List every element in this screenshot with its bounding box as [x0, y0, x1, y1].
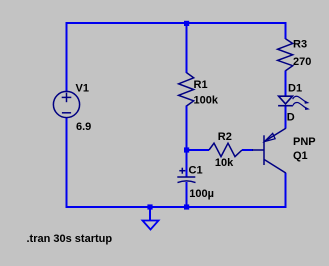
svg-text:D: D [287, 112, 295, 124]
svg-text:10k: 10k [215, 157, 234, 169]
node junction R1/R2/C1 [184, 147, 189, 152]
svg-text:.tran 30s startup: .tran 30s startup [27, 233, 113, 245]
svg-text:PNP: PNP [293, 136, 316, 148]
svg-text:100µ: 100µ [189, 188, 214, 200]
base pin [252, 149, 264, 151]
wire middle branch top [186, 23, 188, 73]
D1 light arrow 2 [293, 102, 305, 107]
svg-text:6.9: 6.9 [76, 121, 91, 133]
collector diagonal [264, 159, 286, 173]
voltage source V1 [53, 91, 79, 117]
resistor R3 [278, 39, 293, 71]
diode D1 (LED) [278, 96, 293, 106]
wire R3 to D1 [285, 71, 287, 97]
wire right rail top (to R3) [285, 22, 287, 39]
svg-text:R1: R1 [194, 79, 208, 91]
wire left rail bottom [66, 118, 68, 209]
wire ground stem [149, 207, 151, 220]
svg-text:Q1: Q1 [293, 150, 308, 162]
resistor R1 [179, 73, 194, 106]
svg-text:R3: R3 [293, 38, 307, 50]
emitter arrow [264, 133, 275, 141]
transistor Q1 (PNP) [252, 128, 286, 173]
svg-text:100k: 100k [194, 95, 219, 107]
wire top-left vertical (V1 plus lead) [66, 23, 68, 92]
D1 light arrow 1 [293, 96, 305, 101]
node junction top (R1/top rail) [184, 21, 189, 26]
svg-text:V1: V1 [76, 82, 89, 94]
wire node to R2 [187, 149, 210, 151]
wire bottom rail [66, 206, 287, 208]
resistor R2 [209, 143, 242, 156]
wire Q1 collector to bottom rail [285, 173, 287, 208]
node junction C1/bottom rail [184, 204, 189, 209]
base bar [263, 135, 265, 165]
svg-text:D1: D1 [288, 82, 302, 94]
node junction ground/bottom rail [147, 204, 152, 209]
svg-text:R2: R2 [218, 131, 232, 143]
svg-text:C1: C1 [189, 165, 203, 177]
wire R2 to Q1 base [242, 149, 253, 151]
wire R1 to C1 [186, 106, 188, 178]
svg-text:270: 270 [293, 56, 311, 68]
wire top rail [66, 22, 287, 24]
wire C1 to bottom rail [186, 182, 188, 207]
wire D1 to Q1 emitter [285, 106, 287, 129]
emitter diagonal [264, 128, 286, 142]
capacitor C1 [177, 168, 195, 183]
ground [143, 221, 159, 230]
